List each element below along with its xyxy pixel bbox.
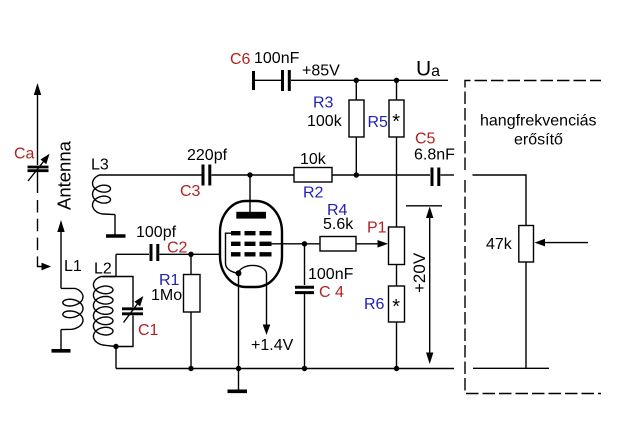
wire C1 top branch (103, 277, 133, 308)
node L2/C1 junction (113, 344, 118, 349)
inductor L2 (93, 277, 116, 347)
ground (L1) (52, 349, 71, 353)
svg-text:6.8nF: 6.8nF (414, 147, 455, 164)
svg-text:R6: R6 (364, 296, 385, 313)
tube filament (239, 265, 267, 287)
node R3 top (354, 78, 359, 83)
wire bottom rail (116, 368, 454, 370)
wire C4 bottom (304, 294, 306, 369)
svg-text:L3: L3 (91, 157, 109, 174)
wire screen grid to R4 (272, 243, 321, 245)
dashed antenna coupling line (37, 200, 39, 262)
resistor R1 (190, 254, 192, 274)
svg-text:100pf: 100pf (136, 224, 177, 241)
svg-text:*: * (392, 111, 400, 133)
svg-text:C1: C1 (138, 322, 159, 339)
resistor R4 (320, 237, 356, 252)
capacitor C3 plates (203, 165, 210, 186)
dashed line arrow (42, 263, 52, 271)
svg-text:100k: 100k (307, 113, 343, 130)
node R1 bottom (188, 366, 193, 371)
svg-text:P1: P1 (367, 220, 387, 237)
svg-text:220pf: 220pf (187, 147, 228, 164)
wire filament +1.4V lead (266, 287, 268, 326)
wire amp input (473, 175, 527, 225)
capacitor C2 plates (151, 244, 158, 261)
wire anode line (112, 174, 430, 176)
svg-text:5.6k: 5.6k (323, 216, 354, 233)
antenna lead wire (37, 93, 39, 165)
svg-text:100nF: 100nF (254, 50, 300, 67)
node cathode bottom (236, 366, 241, 371)
svg-text:hangfrekvenciás: hangfrekvenciás (480, 113, 597, 130)
+20V measure arrow (429, 213, 431, 357)
wire C1 bottom branch (116, 316, 133, 347)
svg-text:erősítő: erősítő (514, 132, 563, 149)
node R5 top (394, 78, 399, 83)
tube grid row 1 (231, 231, 272, 235)
wire R4 to P1 (356, 243, 379, 245)
arrow +1.4V (263, 325, 271, 336)
dashed amplifier box (465, 81, 601, 394)
svg-text:L2: L2 (94, 261, 112, 278)
svg-text:1Mo: 1Mo (151, 287, 182, 304)
node R3 bottom junction (354, 172, 359, 177)
svg-text:R2: R2 (303, 185, 324, 202)
svg-text:*: * (392, 296, 400, 318)
svg-text:+20V: +20V (410, 252, 429, 293)
node grid/R1 junction (188, 252, 193, 257)
svg-text:R5: R5 (368, 114, 389, 131)
svg-text:C 4: C 4 (319, 284, 344, 301)
wire C5 right (441, 174, 455, 176)
svg-text:10k: 10k (300, 151, 327, 168)
svg-text:Antenna: Antenna (54, 140, 75, 210)
capacitor C1 plates (122, 309, 143, 314)
capacitor Ca trimmer arrow (28, 161, 44, 181)
tube anode wire (249, 175, 251, 212)
wire grid line left (116, 253, 149, 255)
node C4 bottom (302, 366, 307, 371)
svg-text:R3: R3 (313, 95, 334, 112)
svg-text:C5: C5 (415, 131, 436, 148)
potentiometer P1 (389, 227, 405, 265)
wiper arrow 47k (542, 242, 588, 244)
wire C4 top (304, 244, 306, 285)
node filament tie junction (236, 270, 242, 276)
node screen/C4 junction (302, 241, 307, 246)
tube grid row 2 (231, 242, 272, 246)
resistor 47k (519, 226, 534, 263)
node R6 bottom (394, 366, 399, 371)
capacitor Ca wire below (37, 172, 39, 194)
svg-text:L1: L1 (64, 258, 82, 275)
wire L1 to ground (60, 330, 62, 350)
capacitor C6 plates (283, 70, 290, 91)
resistor R5 (396, 80, 398, 100)
node L1 top arrow (60, 230, 62, 288)
ground (L3) (106, 234, 126, 238)
tube V1 envelope (220, 201, 282, 287)
inductor L1 (61, 288, 83, 329)
wire L3 to ground (114, 215, 116, 235)
node anode junction (247, 172, 252, 177)
svg-text:47k: 47k (486, 236, 513, 253)
capacitor C4 plates (295, 287, 314, 292)
capacitor C1 trimmer arrow (124, 303, 139, 323)
wire grid line right (160, 253, 233, 255)
ground (main) (238, 369, 240, 391)
svg-text:+1.4V: +1.4V (251, 337, 294, 354)
wire C6 left terminal (252, 71, 255, 90)
wire cathode to rail (238, 287, 240, 369)
svg-text:Ca: Ca (14, 146, 35, 163)
+20V reference bar (406, 205, 442, 207)
wire +85V rail (291, 79, 448, 81)
resistor R2 (294, 168, 332, 183)
wire amp bottom rail (473, 367, 549, 369)
tube anode plate (236, 212, 266, 219)
inductor L3 (93, 175, 116, 215)
svg-text:100nF: 100nF (308, 266, 354, 283)
resistor R6 (389, 286, 405, 322)
capacitor C5 plates (432, 168, 439, 187)
tube grid row 3 (231, 252, 272, 256)
svg-text:C3: C3 (180, 183, 201, 200)
wire 47k bottom (525, 262, 527, 368)
tube internal grid1-filament tie (226, 233, 239, 273)
svg-text:C6: C6 (230, 51, 251, 68)
antenna arrow up (34, 83, 41, 95)
resistor R3 (355, 80, 357, 100)
wire L2 top (115, 254, 117, 276)
arrow into P1 wiper (378, 240, 389, 248)
capacitor Ca plates (28, 167, 49, 171)
svg-text:+85V: +85V (302, 63, 340, 80)
wire L2 bottom to rail (115, 347, 117, 369)
